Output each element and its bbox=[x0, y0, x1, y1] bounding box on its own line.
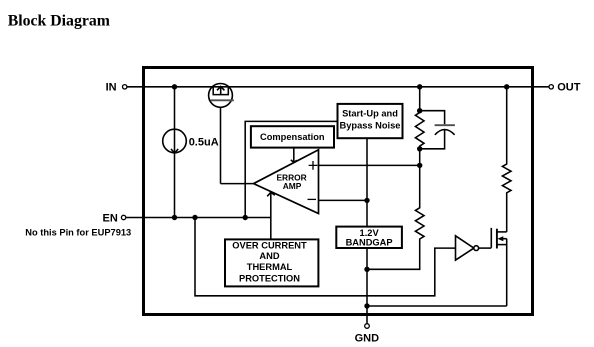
op-amp U1 ERROR AMP bbox=[254, 150, 319, 214]
svg-text:0.5uA: 0.5uA bbox=[189, 137, 219, 149]
node IN junction bbox=[172, 84, 177, 89]
over current thermal protection box bbox=[225, 239, 318, 286]
compensation box bbox=[251, 126, 334, 147]
wire current source top lead bbox=[174, 87, 176, 218]
main block boundary bbox=[144, 68, 533, 315]
capacitor C1 top plate bbox=[435, 124, 455, 126]
wire error amp output to gate bbox=[221, 183, 254, 185]
svg-text:OUT: OUT bbox=[557, 82, 581, 94]
bandgap box 1.2V bbox=[336, 227, 402, 248]
resistor R2 with wire to bandgap node bbox=[367, 149, 424, 269]
svg-text:Bypass Noise: Bypass Noise bbox=[340, 121, 401, 131]
node EN current source junction bbox=[172, 215, 177, 220]
wire Q1 gate lead down bbox=[220, 107, 222, 183]
svg-text:No this Pin for EUP7913: No this Pin for EUP7913 bbox=[25, 228, 131, 238]
wire OUT down to R1 bbox=[419, 87, 421, 111]
node ground rail junction bbox=[364, 303, 369, 308]
wire compensation to error amp with arrow bbox=[291, 148, 297, 163]
wire IN rail to OUT rail bbox=[127, 86, 549, 88]
wire EN down and across to inverter bbox=[195, 218, 455, 296]
wire EN rail bbox=[126, 217, 271, 219]
svg-text:OVER CURRENT: OVER CURRENT bbox=[232, 240, 307, 250]
node R1 top bbox=[417, 108, 422, 113]
inverter U2 bbox=[456, 236, 479, 260]
IN terminal bbox=[106, 82, 127, 94]
svg-text:GND: GND bbox=[355, 332, 380, 344]
wire EN arrow into error amp bbox=[267, 192, 275, 217]
node minus input bandgap junction bbox=[364, 198, 369, 203]
node R1 bottom bbox=[417, 146, 422, 151]
startup and bypass noise box bbox=[338, 104, 403, 138]
node EN inverter branch junction bbox=[192, 215, 197, 220]
minus input marker bbox=[308, 198, 317, 200]
svg-text:AND: AND bbox=[259, 251, 279, 261]
resistor R3 from OUT bbox=[502, 87, 511, 232]
node OUT R3 junction bbox=[504, 84, 509, 89]
node OUT R1 junction bbox=[417, 84, 422, 89]
svg-text:BANDGAP: BANDGAP bbox=[346, 237, 393, 247]
transistor Q1 pass PMOS bbox=[209, 84, 234, 108]
transistor Q2 NMOS bbox=[491, 228, 506, 249]
EN terminal bbox=[103, 213, 126, 225]
svg-text:Start-Up and: Start-Up and bbox=[342, 109, 398, 119]
OUT terminal bbox=[549, 82, 581, 94]
wire startup output down bbox=[366, 138, 368, 226]
wire EN up to startup block bbox=[245, 121, 337, 217]
plus input marker bbox=[309, 161, 318, 170]
wire bandgap down to ground rail bbox=[366, 248, 368, 324]
wire inverter output to gate bbox=[479, 247, 492, 249]
current source I1 0.5uA bbox=[163, 129, 187, 153]
wire EN down to protection block bbox=[270, 218, 272, 240]
capacitor C1 leads bbox=[420, 111, 445, 149]
svg-text:IN: IN bbox=[106, 82, 117, 94]
svg-text:AMP: AMP bbox=[283, 181, 302, 191]
wire plus input bbox=[319, 164, 420, 166]
svg-text:THERMAL: THERMAL bbox=[247, 262, 293, 272]
node plus input junction bbox=[417, 163, 422, 168]
wire minus input bbox=[319, 199, 368, 201]
GND terminal bbox=[355, 324, 380, 345]
resistor R1 bbox=[415, 111, 424, 149]
svg-text:EN: EN bbox=[103, 213, 118, 225]
svg-text:Compensation: Compensation bbox=[260, 132, 325, 142]
ground rail wire bbox=[367, 305, 507, 307]
node EN startup branch junction bbox=[243, 215, 248, 220]
wire Q2 source body down to ground rail bbox=[506, 239, 508, 306]
svg-text:PROTECTION: PROTECTION bbox=[239, 273, 300, 283]
svg-text:Block Diagram: Block Diagram bbox=[8, 12, 110, 29]
capacitor C1 curved plate bbox=[435, 130, 455, 135]
node bandgap R2 junction bbox=[364, 267, 369, 272]
